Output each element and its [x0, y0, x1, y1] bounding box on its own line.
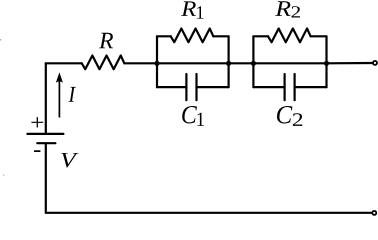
node D dot — [324, 61, 329, 66]
wire node B to node C — [229, 62, 254, 64]
capacitor C2 right plate — [294, 74, 296, 100]
left edge artifact mark 1 — [0, 39, 1, 41]
block 2 right vertical — [325, 36, 327, 87]
label R2 — [275, 1, 290, 16]
block 2 bottom branch left wire — [253, 86, 284, 88]
terminal top right — [373, 61, 377, 65]
label I — [68, 87, 76, 102]
battery V short plate — [37, 142, 55, 144]
terminal bottom right — [372, 211, 376, 215]
battery V long plate — [27, 133, 63, 135]
resistor R — [82, 56, 125, 70]
wire bottom horizontal — [46, 212, 372, 214]
block 2 top branch right wire — [311, 35, 327, 37]
battery plus sign — [31, 117, 43, 127]
node C dot — [251, 61, 256, 66]
label C2 — [277, 106, 292, 123]
block 1 bottom branch right wire — [197, 86, 229, 88]
resistor R1 — [171, 29, 214, 43]
block 1 bottom branch left wire — [157, 86, 186, 88]
wire left vertical top (battery + to top-left corner) — [45, 63, 47, 134]
battery minus sign — [34, 150, 40, 152]
block 2 top branch left wire — [253, 35, 268, 37]
block 2 bottom branch right wire — [295, 86, 327, 88]
capacitor C2 left plate — [284, 74, 286, 100]
left edge artifact mark 2 — [3, 175, 4, 177]
wire battery - down — [45, 143, 47, 213]
block 1 left vertical — [156, 36, 158, 87]
node B dot — [226, 61, 231, 66]
block 2 left vertical — [252, 36, 254, 87]
block 1 top branch left wire — [157, 35, 171, 37]
wire R to node A — [124, 62, 157, 64]
wire main through block 1 — [157, 62, 229, 64]
label R1 — [181, 1, 196, 16]
wire to output terminal top — [327, 62, 373, 64]
block 1 top branch right wire — [213, 35, 228, 37]
node A dot — [154, 61, 159, 66]
label V — [61, 153, 78, 168]
wire main through block 2 — [253, 62, 326, 64]
capacitor C1 left plate — [185, 74, 187, 100]
label R — [99, 33, 113, 48]
resistor R2 — [268, 29, 311, 43]
block 1 right vertical — [228, 36, 230, 87]
capacitor C1 right plate — [195, 74, 197, 100]
current arrow I — [56, 72, 63, 117]
wire top horizontal to resistor R — [46, 62, 82, 64]
label C1 — [182, 106, 197, 123]
